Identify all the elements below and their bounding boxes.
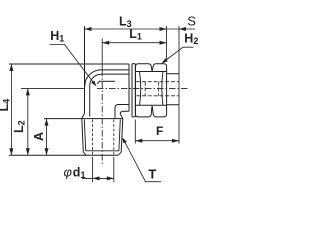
nut top band: two chamfer bumps [135,64,152,71]
tube top line 3 [99,80,115,82]
body top edge (with L4 extension line collinear to left) [9,63,129,65]
svg-text:F: F [156,124,163,138]
body right face [128,64,130,111]
dimension A line and arrows [45,119,49,156]
body leg left edge (with L3 extension line collinear above) [84,26,86,113]
nut right face [166,66,168,114]
nut left face [134,66,136,114]
dimension F line, extensions and arrows [135,120,179,144]
shoulder flare right [120,114,123,119]
dimension L2 line, extension and arrows [21,88,85,155]
shoulder top line (with A extension collinear left) [44,118,123,120]
dimension L3 line and arrows [85,27,167,31]
nut upper face edge line [135,71,166,73]
svg-text:T: T [148,167,156,182]
taper hidden bore lines [93,120,114,155]
dimension S line, extension and arrow [167,26,196,61]
hidden tube/thread end verticals [145,82,158,96]
outer bend arc [85,70,101,86]
dimension phi-d1 extensions, line and arrows [82,157,114,182]
taper bottom chamfers [83,152,121,155]
nut mid-face chamfer arc right [162,72,163,105]
body bottom edge with small corner [120,111,129,114]
svg-text:A: A [32,132,46,141]
svg-text:S: S [187,14,196,29]
nut mid-face chamfer arc left [140,72,141,105]
hidden bore lines through nut and cylinder [136,82,179,96]
middle bend arc [90,74,101,86]
taper bottom edge (with L4/L2/A extension collinear left) [9,154,118,156]
taper left crest edge [82,119,84,153]
body inner left line [89,86,91,117]
taper right crest edge [121,119,123,153]
small bend arc [97,82,99,84]
horizontal centerline of tube port [97,87,188,89]
nut bottom band: two chamfer bumps [135,106,152,117]
thread root line right [119,119,120,150]
tube inner bottom line with small corner [115,105,129,119]
dimension L1 line and arrows [102,41,166,45]
svg-text:φ: φ [64,165,73,180]
tube top line 2 [101,73,129,75]
thread root line left [84,119,85,150]
nut lower face edge line [135,104,166,106]
thread root bottom line [86,150,119,152]
shoulder flare left [82,113,85,118]
tube top line 1 [101,69,129,71]
dimension L4 line and arrows [9,64,13,155]
vertical centerline of threaded leg [101,39,103,71]
extension line at fitting right end (S top / F bottom) [178,26,180,144]
svg-text:L4: L4 [0,99,12,112]
